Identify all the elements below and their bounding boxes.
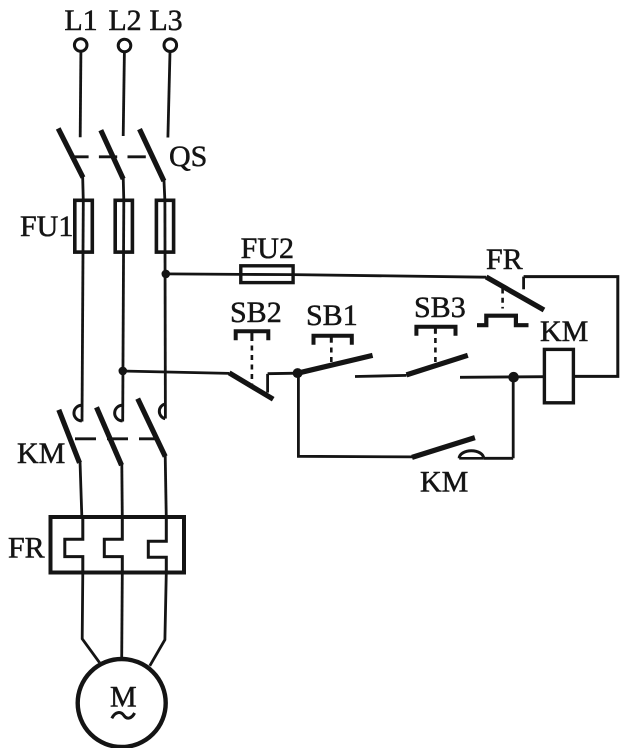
svg-text:L2: L2 — [108, 4, 141, 37]
svg-text:L3: L3 — [149, 4, 182, 37]
svg-text:KM: KM — [420, 466, 468, 499]
svg-text:KM: KM — [17, 437, 65, 470]
svg-text:FR: FR — [8, 532, 45, 565]
svg-text:FU1: FU1 — [20, 210, 73, 243]
svg-text:SB2: SB2 — [230, 296, 282, 329]
svg-text:QS: QS — [169, 140, 207, 173]
svg-text:SB1: SB1 — [306, 299, 358, 332]
svg-text:SB3: SB3 — [414, 291, 466, 324]
svg-text:FR: FR — [486, 243, 523, 276]
svg-text:L1: L1 — [64, 4, 97, 37]
svg-text:FU2: FU2 — [241, 232, 294, 265]
svg-text:M: M — [110, 681, 137, 714]
svg-text:KM: KM — [540, 315, 588, 348]
